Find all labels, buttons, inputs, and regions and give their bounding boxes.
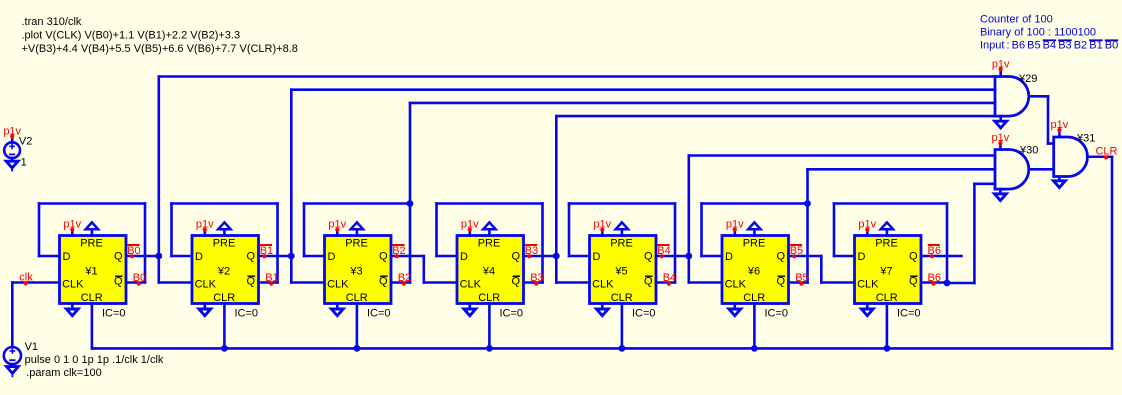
net dot at U4.Qbar — [534, 282, 538, 286]
svg-text:Q: Q — [512, 250, 521, 262]
p1v node dot on U30 — [998, 141, 1002, 145]
wire Q output of U3 — [391, 255, 424, 258]
ground stub under U6 — [729, 304, 741, 316]
svg-text:Q: Q — [247, 276, 256, 288]
ground under U29 — [995, 116, 1007, 128]
PRE power arrow on U3 — [351, 222, 363, 235]
svg-text:CLK: CLK — [460, 279, 482, 291]
bus wire B1bar to AND gate — [291, 88, 995, 91]
p1v node dot on U5 — [600, 228, 604, 232]
ground stub under U4 — [464, 304, 476, 316]
svg-text:Input : B6 B5 B4 B3 B2 B1 B0: Input : B6 B5 B4 B3 B2 B1 B0 — [980, 40, 1118, 52]
p1v stub on U2 — [204, 230, 207, 236]
wire Qbar output of U7 — [921, 281, 947, 284]
p1v node dot on U6 — [733, 228, 737, 232]
svg-text:IC=0: IC=0 — [765, 307, 789, 319]
wire D input of U3 — [304, 255, 325, 258]
wire chain vertical U3.Q to U4.CLK — [422, 256, 425, 283]
flip-flop U5 body — [590, 236, 657, 304]
wire feedback right vertical of U7 — [946, 204, 949, 284]
wire into U31 input 1 — [1048, 142, 1054, 145]
svg-text:CLR: CLR — [81, 292, 103, 304]
pin label Qbar of U1 — [114, 276, 123, 288]
p1v node dot on U29 — [999, 67, 1003, 71]
svg-text:CLR: CLR — [346, 292, 368, 304]
svg-text:clk: clk — [19, 272, 33, 284]
svg-text:p1v: p1v — [992, 58, 1010, 70]
svg-text:¥5: ¥5 — [614, 266, 627, 278]
wire tap from U3 feedback up to gate bus — [409, 103, 412, 204]
net dot at U7.Qbar — [931, 282, 935, 286]
overline for B1 in Input text — [1089, 39, 1103, 41]
wire feedback right vertical of U2 — [276, 204, 279, 283]
p1v node dot on U3 — [335, 228, 339, 232]
wire chain horizontal to U2.CLK — [159, 281, 192, 284]
wire D input of U6 — [702, 255, 723, 258]
bus wire B3bar to AND gate — [556, 115, 995, 118]
p1v stub on U1 — [71, 230, 74, 236]
svg-text:CLK: CLK — [62, 279, 84, 291]
svg-text:IC=0: IC=0 — [500, 307, 524, 319]
wire feedback right vertical of U4 — [541, 204, 544, 283]
svg-text:¥4: ¥4 — [482, 266, 495, 278]
junction dot CLR of U4 on clear bus — [486, 345, 493, 352]
svg-text:Q: Q — [644, 250, 653, 262]
wire feedback right vertical of U5 — [674, 204, 677, 283]
svg-text:.plot V(CLK) V(B0)+1.1 V(B1)+2: .plot V(CLK) V(B0)+1.1 V(B1)+2.2 V(B2)+3… — [22, 29, 241, 41]
svg-text:CLK: CLK — [195, 279, 217, 291]
wire feedback top of U1 — [39, 202, 145, 205]
wire feedback top of U4 — [437, 202, 543, 205]
wire Qbar output of U1 — [126, 281, 145, 284]
wire feedback left vertical of U2 — [170, 204, 173, 257]
svg-text:IC=0: IC=0 — [367, 307, 391, 319]
wire U30 output to U31 input 2 — [1029, 168, 1054, 171]
junction dot on U3 feedback — [407, 200, 414, 207]
junction dot CLR of U3 on clear bus — [354, 345, 361, 352]
wire feedback left vertical of U1 — [38, 204, 41, 257]
wire Qbar output of U3 — [391, 281, 410, 284]
svg-text:Q: Q — [114, 250, 123, 262]
svg-text:p1v: p1v — [63, 219, 81, 231]
svg-text:.param clk=100: .param clk=100 — [26, 367, 102, 379]
net dot at U3.Q — [395, 254, 399, 258]
overline for B0 in Input text — [1105, 39, 1118, 41]
wire feedback top of U3 — [304, 202, 410, 205]
pin label Qbar of U6 — [777, 276, 786, 288]
wire tap from U4.Q junction up to gate bus — [555, 116, 558, 256]
svg-text:p1v: p1v — [196, 219, 214, 231]
wire U29 output down to U31 — [1047, 96, 1050, 143]
svg-text:CLK: CLK — [725, 279, 747, 291]
wire feedback left vertical of U3 — [303, 204, 306, 257]
wire D input of U4 — [437, 255, 458, 258]
AND gate U30 body — [995, 150, 1029, 190]
svg-text:¥6: ¥6 — [747, 266, 760, 278]
net label B2bar at U3.Q — [392, 245, 405, 257]
svg-text:CLK: CLK — [327, 279, 349, 291]
svg-text:CLR: CLR — [611, 292, 633, 304]
junction dot at U7.Qbar — [944, 280, 951, 287]
PRE power arrow on U7 — [881, 222, 893, 235]
p1v stub on U31 — [1058, 130, 1061, 137]
p1v stub on U7 — [866, 230, 869, 236]
wire Qbar output of U6 — [789, 281, 808, 284]
wire chain vertical U1.Q to U2.CLK — [158, 256, 161, 283]
PRE power arrow on U1 — [86, 222, 98, 235]
junction dot at U1.Q — [155, 253, 162, 260]
wire CLR of U5 down to clear bus — [621, 304, 624, 349]
svg-text:D: D — [858, 251, 866, 263]
wire feedback left vertical of U4 — [435, 204, 438, 257]
wire clk horizontal to U1 CLK — [12, 281, 59, 284]
svg-text:B0: B0 — [127, 245, 140, 257]
svg-text:B4: B4 — [657, 245, 670, 257]
svg-text:D: D — [63, 251, 71, 263]
wire U29 output — [1029, 95, 1048, 98]
wire feedback left vertical of U7 — [833, 204, 836, 257]
voltage source V2 — [4, 136, 20, 161]
svg-text:IC=0: IC=0 — [102, 307, 126, 319]
svg-text:Q: Q — [644, 276, 653, 288]
junction dot CLR of U6 on clear bus — [751, 345, 758, 352]
wire CLR of U4 down to clear bus — [488, 304, 491, 349]
svg-text:p1v: p1v — [726, 219, 744, 231]
p1v stub on U3 — [336, 230, 339, 236]
net dot at U6.Qbar — [799, 282, 803, 286]
svg-text:Binary of 100 : 1100100: Binary of 100 : 1100100 — [980, 27, 1096, 39]
net dot at U7.Q — [930, 254, 934, 258]
wire chain vertical U2.Q to U3.CLK — [290, 256, 293, 283]
svg-text:PRE: PRE — [213, 238, 236, 250]
ground under V1 — [7, 367, 19, 377]
flip-flop U2 body — [192, 236, 259, 304]
wire Q output of U2 — [259, 255, 292, 258]
svg-text:Q: Q — [909, 276, 918, 288]
svg-text:1: 1 — [21, 156, 27, 168]
wire U7.Qbar extension to tap — [947, 282, 974, 285]
wire tap from U5.Q junction up to gate bus — [687, 156, 690, 257]
CLR net dot — [1104, 155, 1108, 159]
svg-text:¥30: ¥30 — [1019, 144, 1038, 156]
wire feedback top of U5 — [569, 202, 675, 205]
wire clk vertical from V1 — [11, 283, 14, 347]
net label B4bar at U5.Q — [657, 245, 670, 257]
junction dot CLR of U5 on clear bus — [619, 345, 626, 352]
junction dot CLR of U2 on clear bus — [221, 345, 228, 352]
wire Q output of U4 — [524, 255, 557, 258]
wire CLR of U3 down to clear bus — [356, 304, 359, 349]
net dot at U6.Q — [792, 254, 796, 258]
wire tap from U2.Q junction up to gate bus — [290, 90, 293, 256]
wire feedback right vertical of U6 — [806, 204, 809, 283]
svg-text:PRE: PRE — [610, 238, 633, 250]
svg-text:Q: Q — [777, 250, 786, 262]
net label B3bar at U4.Q — [525, 245, 538, 257]
svg-text:CLR: CLR — [478, 292, 500, 304]
junction dot at U2.Q — [288, 253, 295, 260]
junction dot on U6 feedback — [804, 200, 811, 207]
p1v stub on U5 — [601, 230, 604, 236]
p1v stub on U29 — [999, 69, 1002, 76]
svg-text:Q: Q — [777, 276, 786, 288]
svg-text:Counter of 100: Counter of 100 — [980, 14, 1053, 26]
svg-text:IC=0: IC=0 — [897, 307, 921, 319]
net dot at U2.Qbar — [269, 282, 273, 286]
wire Qbar output of U5 — [656, 281, 675, 284]
svg-text:p1v: p1v — [992, 132, 1010, 144]
wire chain horizontal to U3.CLK — [291, 281, 324, 284]
svg-text:¥29: ¥29 — [1018, 73, 1037, 85]
svg-text:CLR: CLR — [213, 292, 235, 304]
svg-text:Q: Q — [379, 250, 388, 262]
wire Q output of U6 — [789, 255, 822, 258]
svg-text:CLR: CLR — [876, 292, 898, 304]
svg-text:Q: Q — [909, 250, 918, 262]
wire feedback right vertical of U3 — [409, 204, 412, 283]
wire Qbar output of U2 — [259, 281, 278, 284]
wire chain horizontal to U6.CLK — [689, 281, 722, 284]
svg-text:p1v: p1v — [1051, 119, 1069, 131]
svg-text:PRE: PRE — [875, 238, 898, 250]
flip-flop U4 body — [457, 236, 524, 304]
net label B0bar at U1.Q — [127, 245, 140, 257]
wire CLR down right side to clear bus — [1111, 157, 1114, 349]
ground stub under U2 — [199, 304, 211, 316]
clk node dot — [24, 281, 28, 285]
net dot at U4.Q — [527, 254, 531, 258]
wire Q output stub of U7 — [921, 255, 962, 258]
pin label Qbar of U7 — [909, 276, 918, 288]
p1v stub on U4 — [468, 230, 471, 236]
overline for B3 in Input text — [1058, 39, 1072, 41]
wire chain horizontal to U5.CLK — [556, 281, 589, 284]
bus wire B6 to AND gate — [974, 183, 995, 186]
bus wire B0bar to AND gate — [159, 75, 995, 78]
svg-text:¥3: ¥3 — [349, 266, 362, 278]
pin label Qbar of U5 — [644, 276, 653, 288]
svg-text:¥31: ¥31 — [1076, 132, 1095, 144]
svg-text:V2: V2 — [19, 136, 32, 148]
svg-text:B6: B6 — [928, 245, 941, 257]
svg-text:p1v: p1v — [858, 219, 876, 231]
wire Q output of U5 — [656, 255, 689, 258]
svg-text:p1v: p1v — [461, 219, 479, 231]
PRE power arrow on U6 — [748, 222, 760, 235]
ground stub under U3 — [331, 304, 343, 316]
svg-text:B1: B1 — [260, 245, 273, 257]
svg-text:CLK: CLK — [592, 279, 614, 291]
svg-text:¥2: ¥2 — [217, 266, 230, 278]
net label B5bar at U6.Q — [790, 245, 803, 257]
flip-flop U3 body — [325, 236, 392, 304]
svg-text:Q: Q — [114, 276, 123, 288]
AND gate U31 body — [1054, 137, 1088, 177]
ground stub under U7 — [861, 304, 873, 316]
svg-text:D: D — [725, 251, 733, 263]
bus wire B5 to AND gate — [808, 168, 996, 171]
wire chain horizontal to U7.CLK — [821, 281, 854, 284]
svg-text:CLR: CLR — [743, 292, 765, 304]
svg-text:+V(B3)+4.4 V(B4)+5.5 V(B5)+6.6: +V(B3)+4.4 V(B4)+5.5 V(B5)+6.6 V(B6)+7.7… — [22, 43, 298, 55]
svg-text:PRE: PRE — [345, 238, 368, 250]
wire tap vertical from U7.Qbar up — [973, 184, 976, 283]
svg-text:Q: Q — [512, 276, 521, 288]
PRE power arrow on U4 — [483, 222, 495, 235]
wire feedback left vertical of U6 — [700, 204, 703, 257]
wire chain vertical U6.Q to U7.CLK — [820, 256, 823, 283]
p1v node dot on U1 — [70, 228, 74, 232]
svg-text:p1v: p1v — [328, 219, 346, 231]
wire feedback top of U7 — [834, 202, 947, 205]
wire CLR of U1 down to clear bus — [91, 304, 94, 349]
flip-flop U7 body — [855, 236, 922, 304]
svg-text:p1v: p1v — [593, 219, 611, 231]
svg-text:.tran 310/clk: .tran 310/clk — [22, 16, 82, 28]
svg-text:Q: Q — [379, 276, 388, 288]
PRE power arrow on U5 — [616, 222, 628, 235]
wire feedback right vertical of U1 — [144, 204, 147, 283]
net dot at U1.Qbar — [137, 282, 141, 286]
net dot at U5.Qbar — [667, 282, 671, 286]
wire CLR of U7 down to clear bus — [886, 304, 889, 349]
svg-text:D: D — [460, 251, 468, 263]
net dot at U5.Q — [660, 254, 664, 258]
clear bus wire along bottom — [92, 347, 1112, 350]
p1v node dot on U2 — [203, 228, 207, 232]
junction dot at U5.Q — [685, 253, 692, 260]
svg-text:D: D — [195, 251, 203, 263]
wire D input of U5 — [569, 255, 590, 258]
wire D input of U1 — [39, 255, 60, 258]
p1v stub on U30 — [999, 143, 1002, 149]
wire D input of U7 — [834, 255, 855, 258]
wire chain horizontal to U4.CLK — [424, 281, 457, 284]
ground under U30 — [995, 189, 1007, 200]
wire tap from U6 feedback up to gate bus — [806, 169, 809, 203]
wire feedback top of U2 — [172, 202, 278, 205]
p1v node dot on U31 — [1057, 128, 1061, 132]
svg-text:V1: V1 — [25, 341, 38, 353]
ground under U31 — [1054, 177, 1066, 188]
wire chain vertical U4.Q to U5.CLK — [555, 256, 558, 283]
pin label Qbar of U2 — [247, 276, 256, 288]
net label B1bar at U2.Q — [260, 245, 273, 257]
svg-text:B3: B3 — [525, 245, 538, 257]
overline for B4 in Input text — [1043, 39, 1056, 41]
bus wire B2 to AND gate — [410, 102, 995, 105]
pin label Qbar of U3 — [379, 276, 388, 288]
p1v node dot on U4 — [468, 228, 472, 232]
svg-text:¥1: ¥1 — [84, 266, 97, 278]
ground under V2 — [6, 161, 18, 170]
svg-text:CLK: CLK — [857, 279, 879, 291]
bus wire B4bar to AND gate — [689, 154, 995, 157]
wire U31 CLR output — [1087, 155, 1112, 158]
svg-text:Q: Q — [247, 250, 256, 262]
p1v node dot on U7 — [865, 228, 869, 232]
wire D input of U2 — [172, 255, 193, 258]
net dot at U3.Qbar — [402, 282, 406, 286]
junction dot CLR of U7 on clear bus — [884, 345, 891, 352]
svg-text:¥7: ¥7 — [879, 266, 892, 278]
svg-text:B2: B2 — [392, 245, 405, 257]
wire feedback top of U6 — [702, 202, 808, 205]
wire tap from U1.Q junction up to gate bus — [158, 77, 161, 257]
svg-text:PRE: PRE — [80, 238, 103, 250]
svg-text:PRE: PRE — [478, 238, 501, 250]
voltage source V1 — [4, 347, 21, 367]
wire chain vertical U5.Q to U6.CLK — [687, 256, 690, 283]
svg-text:IC=0: IC=0 — [235, 307, 259, 319]
net dot at U2.Q — [262, 254, 266, 258]
svg-text:B5: B5 — [790, 245, 803, 257]
wire feedback left vertical of U5 — [568, 204, 571, 257]
p1v stub on U6 — [733, 230, 736, 236]
svg-text:D: D — [328, 251, 336, 263]
PRE power arrow on U2 — [218, 222, 230, 235]
wire Q output of U1 — [126, 255, 159, 258]
p1v node dot at V2 — [10, 134, 14, 138]
wire CLR of U6 down to clear bus — [753, 304, 756, 349]
AND gate U29 body — [995, 77, 1029, 117]
wire Qbar output of U4 — [524, 281, 543, 284]
ground stub under U1 — [66, 304, 78, 316]
svg-text:PRE: PRE — [743, 238, 766, 250]
flip-flop U1 body — [60, 236, 127, 304]
junction dot at U4.Q — [553, 253, 560, 260]
svg-text:IC=0: IC=0 — [632, 307, 656, 319]
wire CLR of U2 down to clear bus — [223, 304, 226, 349]
net label B6bar at U7.Q — [928, 245, 941, 257]
flip-flop U6 body — [722, 236, 789, 304]
net dot at U1.Q — [130, 254, 134, 258]
svg-text:pulse 0 1 0 1p 1p .1/clk 1/clk: pulse 0 1 0 1p 1p .1/clk 1/clk — [25, 354, 164, 366]
pin label Qbar of U4 — [512, 276, 521, 288]
svg-text:D: D — [593, 251, 601, 263]
ground stub under U5 — [596, 304, 608, 316]
